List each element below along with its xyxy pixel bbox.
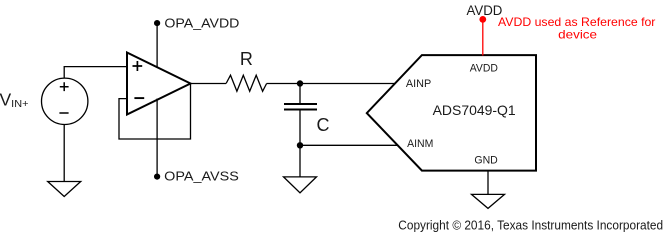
svg-text:GND: GND xyxy=(474,155,497,167)
svg-text:Copyright © 2016, Texas Instru: Copyright © 2016, Texas Instruments Inco… xyxy=(398,218,663,232)
svg-text:OPA_AVSS: OPA_AVSS xyxy=(164,168,239,183)
svg-text:R: R xyxy=(240,49,253,69)
svg-text:AINM: AINM xyxy=(407,138,433,150)
svg-text:AINP: AINP xyxy=(406,78,431,90)
svg-text:AVDD: AVDD xyxy=(467,3,503,19)
svg-text:AVDD: AVDD xyxy=(470,62,498,74)
svg-text:device: device xyxy=(558,28,597,42)
svg-text:C: C xyxy=(317,115,330,135)
svg-text:IN+: IN+ xyxy=(11,98,28,110)
svg-text:ADS7049-Q1: ADS7049-Q1 xyxy=(433,102,516,118)
svg-text:V: V xyxy=(0,89,12,109)
svg-text:OPA_AVDD: OPA_AVDD xyxy=(164,16,239,31)
